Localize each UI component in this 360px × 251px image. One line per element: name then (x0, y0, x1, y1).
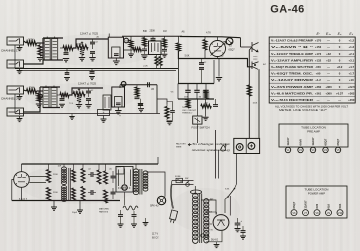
label A6 node (181, 31, 185, 34)
tone top bus (122, 35, 182, 37)
toner smudge ch2 (25, 83, 135, 111)
output transformer T1 core (140, 169, 142, 195)
wire mixer bottom bus ch1 (43, 59, 63, 61)
power transformer T2 top cap (190, 190, 201, 194)
tube location preamp socket circles V1-V5 (285, 147, 340, 152)
series capacitor C29 on ch2 bus (148, 82, 150, 87)
ground below C26b (240, 232, 246, 239)
speaker output jack SPK (157, 196, 165, 205)
grid resistor R7 (37, 91, 41, 102)
wire ch2 jacks to bus (14, 94, 16, 114)
wire J3 to R6 (24, 90, 27, 91)
power stage top bus (22, 157, 159, 164)
driver box inner sub-box (116, 167, 124, 175)
resistor R20 upper (81, 164, 85, 183)
label 100K jack wire (253, 103, 258, 105)
wire jacks to bottom bus (14, 45, 16, 69)
svg-text:2.2K: 2.2K (143, 65, 148, 67)
ground below R25 (128, 48, 134, 57)
wire V2 box output (124, 49, 133, 51)
plate supply bus top (180, 37, 241, 38)
tube stage V3 box (149, 41, 162, 55)
svg-text:6V6: 6V6 (315, 203, 319, 208)
tube location preamp tube name labels (286, 137, 340, 145)
bus wire channel 2 bottom (15, 113, 160, 115)
svg-text:CHANNEL 1: CHANNEL 1 (1, 49, 18, 53)
wire J2 to grid bus (24, 38, 44, 64)
label 50K (143, 30, 148, 33)
svg-text:—: — (338, 98, 341, 102)
svg-text:1M: 1M (163, 30, 166, 33)
plate resistor R9 with tap (73, 89, 85, 96)
svg-text:WIRE: WIRE (176, 146, 182, 148)
label .02 cap C10 (91, 90, 95, 92)
wire trem to foot switch (196, 99, 198, 116)
resistor R19 lower (72, 188, 76, 201)
svg-text:S.W.: S.W. (225, 189, 230, 191)
svg-text:4.7K: 4.7K (206, 33, 211, 35)
resistor R18 upper (72, 164, 76, 182)
svg-text:GA-46: GA-46 (270, 4, 304, 16)
wire jack A down to output box (249, 47, 252, 138)
voltage chart footnote (275, 104, 348, 112)
input jack J2 channel 1 (7, 60, 24, 74)
svg-text:FOOT SWITCH: FOOT SWITCH (192, 125, 210, 129)
filter capacitor C25 (235, 218, 243, 225)
input jack J3 channel 2 (7, 86, 24, 100)
label CHANNEL 1 (1, 49, 18, 53)
svg-text:6SQ7: 6SQ7 (336, 138, 340, 145)
tube V6 phase inverter envelope (14, 172, 30, 188)
resistor R30 below V3 box (155, 55, 158, 69)
svg-text:12AX7: 12AX7 (304, 200, 308, 208)
wire heater down to rectifier (218, 150, 220, 179)
svg-text:500K: 500K (29, 87, 35, 90)
ground below C6 (162, 54, 168, 57)
wire ch2 bus down (156, 85, 158, 114)
capacitor C3 (90, 52, 95, 54)
voltage chart column headers (316, 32, 353, 36)
label 2.2K (143, 65, 148, 67)
interstage core line (69, 168, 71, 200)
T2 secondary taps (206, 200, 212, 242)
matched pair note (99, 208, 110, 214)
resistor R6 500K (27, 87, 37, 94)
capacitor C15 (199, 68, 204, 72)
label 1M (163, 30, 166, 33)
capacitor inside V4 box (116, 103, 121, 105)
label 117V 60 cycle (152, 233, 159, 240)
tube stage V2 inner box (112, 47, 120, 58)
bus wire channel 1 bottom (15, 68, 178, 70)
svg-text:ALL VOLTAGES TO CHASSIS WITH 1: ALL VOLTAGES TO CHASSIS WITH 1000 OHM PE… (275, 104, 348, 108)
small stage box B1 (103, 95, 111, 110)
ground below C28 (138, 106, 144, 112)
heater wire pair under ch1 (20, 70, 176, 72)
svg-text:METER. LINE VOLTAGE “117”: METER. LINE VOLTAGE “117” (279, 108, 327, 112)
label 250K trem (184, 97, 189, 99)
ground stub G3 (143, 218, 149, 226)
input jack J4 channel 2 (7, 108, 24, 122)
coupling capacitor C20 lower (88, 190, 96, 195)
tube V5 envelope (210, 41, 227, 57)
wire R6 to ch2 grid (37, 90, 44, 92)
label 500K on R4 (77, 44, 82, 46)
resistor R21 lower (81, 187, 85, 201)
ch2 chain capacitor C27 (135, 96, 140, 99)
ground below C11 (85, 101, 91, 108)
plate resistor R4 with tap (76, 42, 88, 49)
trem resistor R14 horizontal (201, 103, 212, 108)
wire J4 to mixer (24, 87, 41, 112)
voltage chart table (269, 37, 355, 103)
wire mid bus into V5 stage (199, 59, 252, 67)
wire to decoupling cluster (157, 99, 173, 106)
trem footswitch jack lower (252, 62, 259, 70)
ground below R2 (37, 58, 43, 61)
wire B-plus down to rectifier (215, 130, 217, 179)
label A7 (263, 63, 266, 66)
label 5U4G (211, 239, 218, 242)
standby switch S3 (227, 188, 235, 198)
label SPK 4 ohm (150, 205, 159, 208)
svg-text:PRE AMP: PRE AMP (307, 130, 320, 134)
svg-text:reverse speaker plug: reverse speaker plug (192, 148, 231, 152)
capacitor C1 (64, 48, 69, 54)
svg-text:+: + (119, 114, 121, 118)
ground tap on ch2 bus (69, 114, 74, 120)
note voltage change line 2 (192, 148, 231, 152)
toner smudge preamp (35, 34, 155, 66)
resistor R8 (57, 93, 69, 97)
coupling capacitor C19 upper (88, 172, 96, 177)
trem left wire (177, 84, 179, 100)
capacitor C21 (111, 171, 116, 183)
ground below C1 (63, 59, 69, 62)
AC cord wires (171, 181, 174, 209)
filter capacitor C26b (241, 226, 246, 232)
ch2 coupling cap C28 blob (138, 99, 143, 106)
trem resistor R13 (186, 99, 190, 108)
fuse F1 (176, 178, 183, 182)
grid resistor R22 (97, 164, 101, 184)
wire to jack tip (241, 46, 253, 48)
ground below C9 (59, 104, 65, 107)
resistor R3 (60, 46, 73, 50)
tube stage V2 outer box (108, 34, 123, 59)
wire mixer top bus ch2 (40, 86, 60, 88)
svg-text:+450: +450 (348, 98, 355, 102)
ground stub G1 on bottom bus (51, 201, 57, 211)
svg-text:12AX7: 12AX7 (311, 137, 315, 145)
tube designator circle V4 (121, 82, 126, 87)
label 10H coil L1 (58, 166, 62, 168)
label A2 node (221, 55, 224, 58)
tube V5 stem to bus (217, 37, 219, 59)
svg-text:100K: 100K (253, 103, 258, 105)
resistor R31 below V3 box (159, 55, 162, 69)
wire cap chain to trem bus (201, 72, 203, 84)
driver stage V7 box (116, 167, 133, 193)
label 12AX7 first stage (80, 32, 98, 36)
bypass capacitor C7 on bus (65, 69, 70, 75)
svg-text:+1.3: +1.3 (349, 45, 355, 49)
wire T2 to rectifier (201, 200, 222, 242)
tube stage V4 inner box (115, 97, 123, 108)
tone chain capacitor C4 (142, 47, 147, 55)
label V5 6SQ7 (229, 44, 236, 52)
output panel divider (245, 138, 247, 153)
svg-text:20µF: 20µF (72, 212, 78, 214)
tone chain resistor R28 (163, 36, 167, 47)
ground below C7 (64, 78, 70, 81)
output jack panel box (234, 138, 260, 153)
svg-text:CHANNEL 2: CHANNEL 2 (1, 97, 18, 101)
resistor R1 500K (27, 39, 37, 46)
ground below C24 (131, 216, 137, 227)
coupling capacitor C5 into V3 (151, 36, 156, 40)
note factory wire (176, 143, 186, 149)
label .05 cap C21 (109, 169, 113, 171)
tone chain resistor R27 (143, 36, 147, 46)
intensity pot P5 (226, 38, 233, 45)
trem capacitor C30 (213, 99, 218, 106)
svg-text:6SQ7: 6SQ7 (229, 49, 236, 52)
svg-text:5U4: 5U4 (338, 203, 342, 208)
svg-text:TREMOLO: TREMOLO (182, 113, 193, 115)
wire J1 to R1 (24, 41, 27, 43)
mixer element M3 channel 2 (43, 86, 49, 108)
svg-text:+: + (103, 111, 105, 115)
tube V6 output wires (29, 177, 46, 183)
wire mixer top bus ch1 (43, 37, 63, 39)
wire output box to standby (235, 154, 237, 189)
jack shorting dashes (254, 57, 258, 60)
capacitor C8 on bus (90, 69, 95, 74)
svg-text:FUSE: FUSE (175, 176, 181, 178)
bias capacitor C24 (132, 211, 137, 216)
ground below C8 (89, 77, 95, 80)
tube designator circle V7 (122, 185, 127, 190)
trem bottom bus (178, 98, 214, 100)
trem capacitor C16 (185, 84, 190, 100)
tube stage V4 outer box (112, 87, 125, 107)
resistor R26 horizontal (133, 48, 142, 52)
cathode resistor R5 (80, 47, 84, 55)
pilot lamp circles (201, 234, 208, 237)
ch2 top bus (120, 85, 157, 88)
output grid resistor R24 lower (104, 190, 108, 203)
label FOOT SWITCH (192, 125, 210, 129)
speaker jack SO2 (248, 143, 255, 150)
grid resistor R16 upper (47, 164, 51, 183)
svg-text:PAIR 6V6: PAIR 6V6 (99, 210, 109, 213)
trem footswitch jack upper (252, 42, 259, 52)
mixer element M1 channel 1 (44, 37, 50, 61)
svg-text:50K: 50K (143, 30, 148, 33)
ground below R11 C13 (167, 113, 173, 125)
note text this amplifier (182, 106, 197, 115)
wire V7 to bias network (124, 192, 126, 205)
tube V6 left wire (12, 180, 14, 201)
wire mixer bottom bus ch2 (43, 107, 60, 109)
ground below V2 box (113, 58, 120, 65)
svg-text:6SQ7: 6SQ7 (324, 138, 328, 145)
svg-text:Eʳ: Eʳ (316, 32, 319, 36)
input jack J1 channel 1 (7, 37, 24, 51)
output grid resistor R23 upper (104, 164, 108, 184)
ground below C25 (235, 225, 241, 232)
trem wire from V5 (213, 60, 215, 84)
volume resistor R29 (177, 36, 181, 51)
foot switch box (193, 116, 202, 124)
capacitor C11 (86, 99, 91, 101)
tube location chart (power amp) (286, 186, 347, 218)
svg-text:V10: V10 (338, 212, 343, 215)
mains wire pair (172, 181, 194, 185)
svg-text:POWER AMP: POWER AMP (308, 192, 325, 196)
label 6.3V (210, 212, 213, 214)
bias squiggle marking (123, 206, 138, 210)
svg-text:60 CY.: 60 CY. (152, 236, 159, 239)
label A5 (151, 88, 155, 91)
interstage coil L1 upper (62, 164, 67, 185)
trem resistor R15 (204, 91, 208, 99)
label .02 cap C2 (95, 42, 99, 44)
output transformer T1 primary (133, 164, 138, 195)
ground below C12 (101, 116, 107, 123)
label 20 uF (72, 212, 78, 214)
svg-text:FACTORY: FACTORY (176, 143, 186, 146)
svg-text:+362: +362 (348, 91, 355, 95)
ground below tone chain (141, 54, 149, 59)
interstage coil L2 lower (62, 186, 67, 202)
label 5.6K (185, 56, 190, 58)
svg-text:SW: SW (185, 178, 188, 180)
rectifier tube V10 envelope (213, 215, 229, 231)
mixer element M2 channel 1 (52, 37, 58, 61)
wire top bus ch1 stage2 (73, 39, 108, 48)
svg-text:6SQ7: 6SQ7 (292, 201, 296, 208)
output transformer T1 secondary (143, 171, 148, 191)
svg-text:6AV6: 6AV6 (299, 139, 303, 146)
AC plug (169, 210, 178, 223)
svg-text:+1.2: +1.2 (349, 39, 355, 43)
svg-text:MATCHED: MATCHED (99, 208, 110, 211)
wire foot switch to output assembly (196, 124, 198, 143)
resistor R12 4.7K plate (203, 33, 211, 59)
trem wire to ground stub (205, 99, 207, 117)
wire standby to filter node (225, 196, 230, 216)
toner smudge power (20, 164, 140, 204)
label 220K lower (53, 192, 58, 194)
resistor R33 on jack wire (247, 85, 251, 96)
label trem tap (171, 92, 174, 94)
grid resistor R17 lower (47, 183, 51, 201)
svg-text:117 V: 117 V (152, 233, 158, 236)
tube location power amp tube name labels (292, 200, 342, 208)
bias capacitor C23 (118, 210, 123, 216)
label 1M volume (79, 44, 82, 46)
svg-text:Eₖ: Eₖ (349, 32, 353, 36)
cathode resistor R10 (77, 94, 81, 102)
label A1 node (97, 35, 100, 38)
trem capacitor C18 (203, 84, 208, 100)
arrow into assembly (188, 143, 191, 145)
label fuse sw (175, 176, 188, 180)
label 5V (211, 230, 214, 232)
plate resistor R25 vertical (129, 36, 133, 48)
ground below R5 (79, 55, 85, 61)
power transformer T2 primary (193, 186, 199, 243)
wire jack B down to output box (258, 69, 260, 138)
title GA-46 (270, 4, 304, 16)
heater wire pair (212, 212, 217, 215)
speaker wire from T1 (147, 172, 166, 196)
svg-text:5.6K: 5.6K (185, 56, 190, 58)
coupling capacitor C2 (90, 39, 95, 49)
plus mark on bus (119, 114, 121, 118)
ground below C3 (89, 54, 95, 61)
note voltage change line 1 (192, 142, 231, 146)
handwriting loop blob (221, 144, 226, 152)
decoupling capacitor C13 (170, 106, 175, 112)
svg-text:250K: 250K (150, 30, 156, 33)
tube V6 stem up (21, 164, 23, 172)
label to 4 ch2 (69, 103, 73, 105)
label 6SQ7 dots (19, 198, 28, 201)
ground G-mid (216, 78, 222, 81)
power transformer T2 secondary (204, 199, 209, 243)
label 500K ch2 (74, 91, 79, 93)
coupling capacitor C10 (86, 88, 91, 97)
ground below V4 box (115, 107, 121, 114)
svg-text:12AX7: 12AX7 (286, 137, 290, 145)
grid resistor R2 (38, 43, 42, 56)
svg-text:1M: 1M (199, 97, 202, 99)
label 6V6 upper (117, 166, 122, 168)
electrolytic capacitor C12 block (98, 110, 110, 116)
svg-text:250K: 250K (184, 97, 189, 99)
wire ch1 out to mid bus (178, 51, 199, 84)
svg-text:OSC. CIRCUIT: OSC. CIRCUIT (182, 110, 197, 112)
svg-text:To change voltage: To change voltage (192, 142, 231, 146)
label 12AX7 second stage (78, 82, 96, 86)
svg-text:THIS AMP: THIS AMP (182, 106, 192, 109)
wire ch2 stage bus (69, 88, 103, 95)
power stage bottom bus (12, 200, 120, 202)
trem capacitor C17 (194, 84, 199, 100)
decoupling resistor R11 vertical (165, 104, 169, 119)
label .02 cap C19 (88, 169, 92, 171)
wire R1 to grid node (37, 42, 45, 44)
label 250K (150, 30, 156, 33)
ground stub on mid bus (218, 59, 220, 77)
trem ground G4 (203, 117, 209, 120)
toner smudge psu (170, 188, 240, 232)
capacitor C22 (111, 188, 116, 199)
ground below C23 (118, 216, 124, 227)
power transformer T2 core (200, 194, 202, 244)
power switch S2 (186, 181, 190, 187)
svg-text:5U4 G: 5U4 G (211, 239, 218, 242)
tube location chart (pre amp) (279, 124, 348, 147)
tube designator circle V3b (38, 94, 42, 98)
svg-text:SPK 4Ω: SPK 4Ω (150, 205, 159, 208)
tube V6 cathode wire (21, 187, 23, 200)
ground stub G2 on bottom bus (77, 201, 83, 214)
svg-text:6L6: 6L6 (327, 203, 331, 208)
